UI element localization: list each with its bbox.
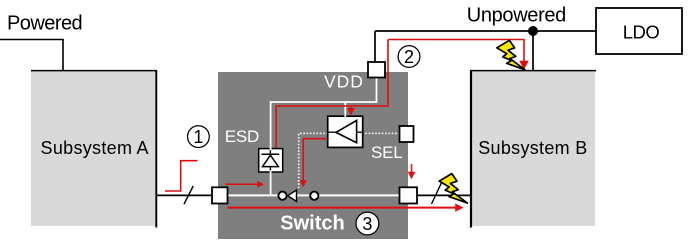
red path: backpower to Subsystem B: [388, 40, 524, 62]
wire: switch to B: [417, 194, 470, 196]
svg-text:Powered: Powered: [7, 12, 82, 34]
svg-text:3: 3: [362, 214, 372, 234]
svg-text:VDD: VDD: [324, 72, 364, 92]
svg-text:Subsystem A: Subsystem A: [41, 138, 149, 158]
red path: comparator to switch arm: [303, 139, 328, 181]
red arrowhead into Subsystem B: [519, 61, 529, 70]
ESD strike bolt bottom: [439, 174, 467, 204]
node 2 circled: [398, 46, 420, 68]
wire: unpowered rail: [375, 30, 596, 32]
node: switch contact left: [278, 192, 286, 200]
pin: VDD (top): [368, 62, 385, 78]
wire: dashed select line to switch arm: [299, 133, 328, 188]
disconnect slash right: [432, 181, 443, 204]
pin: switch right: [400, 187, 418, 203]
disconnect slash left: [184, 186, 193, 204]
svg-text:ESD: ESD: [225, 127, 259, 146]
pin: switch left: [212, 187, 228, 203]
wire: A to switch pin: [156, 194, 213, 196]
subsystem B box: [470, 70, 596, 228]
wire: Powered leader line: [0, 40, 63, 71]
svg-text:2: 2: [404, 47, 414, 67]
pin: SEL (right): [400, 126, 414, 142]
node 1 circled: [188, 126, 210, 148]
red path 3: through-switch line: [228, 207, 457, 209]
wire: dot down to Subsystem B: [532, 31, 534, 70]
svg-text:1: 1: [193, 127, 203, 147]
wire: ESD box to main wire (white): [270, 172, 272, 195]
svg-text:SEL: SEL: [371, 143, 403, 162]
svg-text:Unpowered: Unpowered: [467, 5, 566, 27]
signal rising-edge symbol: [165, 161, 198, 191]
subsystem A box: [31, 70, 157, 228]
wire: rail down to VDD pin: [374, 31, 376, 62]
wire: dashed SEL line right of comparator: [362, 132, 400, 134]
junction dot: [528, 26, 538, 36]
wire: white crossing over ESD box borders: [270, 147, 272, 150]
wire: branch down to comparator (white): [344, 102, 346, 117]
red flow arrow above right pin: [411, 164, 413, 173]
svg-text:LDO: LDO: [623, 22, 660, 43]
svg-text:Subsystem B: Subsystem B: [478, 138, 587, 158]
LDO box: [596, 8, 682, 54]
switch box: [218, 72, 408, 239]
red path: ESD loop via VDD: [276, 40, 388, 150]
wire: VDD pin down and across to ESD (white): [271, 77, 377, 149]
wire: white crossing over comparator top border: [344, 115, 346, 118]
wire: main switch wire (white): [220, 194, 406, 196]
svg-text:Switch: Switch: [280, 213, 344, 235]
red arrow into comparator: [350, 106, 352, 110]
comparator U1: [328, 116, 363, 147]
switch wiper arrow: [288, 190, 297, 201]
node 3 circled: [356, 212, 379, 235]
ESD strike bolt top: [497, 40, 525, 70]
node: switch contact right: [310, 192, 318, 200]
ESD diode D1: [259, 149, 283, 172]
red flow arrow at left pin: [226, 183, 259, 185]
